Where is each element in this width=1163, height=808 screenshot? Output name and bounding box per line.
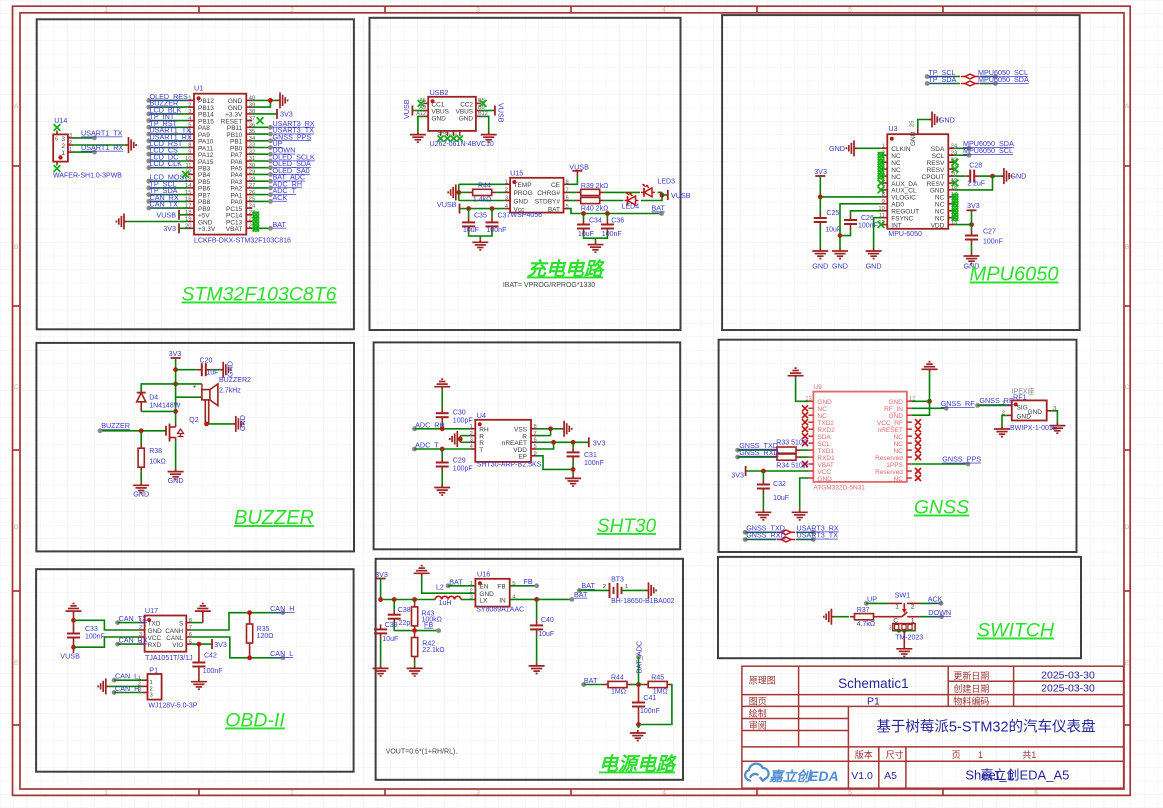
svg-text:5: 5 [566,204,569,210]
svg-text:100nF: 100nF [85,634,105,641]
svg-text:LED3: LED3 [658,178,676,185]
svg-text:B: B [1125,244,1129,251]
svg-text:+: + [193,383,197,390]
svg-text:CAN_RX: CAN_RX [119,636,148,645]
svg-text:GNSS_RF: GNSS_RF [941,399,976,408]
svg-text:Reserved: Reserved [875,469,903,476]
svg-text:U15: U15 [510,169,523,178]
svg-text:DOWN: DOWN [928,608,951,617]
svg-text:2.2uF: 2.2uF [967,181,985,188]
svg-text:A: A [1125,103,1130,110]
svg-text:基于树莓派5-STM32的汽车仪表盘: 基于树莓派5-STM32的汽车仪表盘 [876,718,1095,736]
svg-text:D: D [1125,524,1130,531]
svg-text:嘉立创: 嘉立创 [768,769,812,784]
svg-text:U3: U3 [888,124,897,133]
svg-text:SHT30-ARP-B2.5KS: SHT30-ARP-B2.5KS [477,462,542,469]
svg-text:Schematic1: Schematic1 [838,676,909,691]
svg-text:5: 5 [848,789,852,796]
svg-text:BT3: BT3 [611,576,624,583]
svg-text:CANL: CANL [166,635,183,642]
svg-text:GND: GND [832,262,848,271]
svg-text:GND: GND [1010,172,1026,181]
svg-text:C37: C37 [498,213,511,220]
svg-text:EN: EN [479,584,488,591]
svg-text:25: 25 [910,121,916,127]
svg-text:R34 510Ω: R34 510Ω [776,462,808,469]
svg-text:CANH: CANH [165,628,183,635]
svg-text:U9: U9 [813,384,822,391]
svg-text:100nF: 100nF [487,227,507,234]
svg-text:SW1: SW1 [895,591,911,600]
svg-text:VIO: VIO [172,642,183,649]
svg-text:L2: L2 [436,585,444,592]
svg-text:1: 1 [104,7,108,14]
svg-text:MPU-6050: MPU-6050 [888,231,922,238]
svg-text:ADC_T: ADC_T [415,441,439,450]
svg-text:SHELL1: SHELL1 [437,131,458,137]
svg-text:C34: C34 [589,218,602,225]
svg-text:C31: C31 [584,452,597,459]
svg-text:10uF: 10uF [825,227,841,234]
svg-text:E: E [1125,660,1130,667]
svg-text:RF1: RF1 [1013,393,1027,402]
svg-text:3: 3 [150,693,153,699]
svg-text:NC: NC [894,476,904,483]
svg-text:D: D [14,524,19,531]
svg-text:2.7kHz: 2.7kHz [219,388,241,395]
svg-text:2: 2 [911,604,915,611]
svg-text:AUX_CL: AUX_CL [891,188,917,195]
svg-text:LX: LX [479,597,488,604]
svg-text:GND: GND [148,628,163,635]
svg-text:1uF: 1uF [206,370,218,377]
svg-text:IN: IN [499,597,506,604]
svg-text:WSP4056: WSP4056 [511,212,543,219]
svg-text:BAT: BAT [584,676,598,685]
svg-text:6: 6 [1034,789,1038,796]
svg-text:3: 3 [476,789,480,796]
svg-text:FB: FB [524,577,533,586]
svg-text:5: 5 [848,7,852,14]
svg-text:BAT: BAT [581,581,595,590]
svg-text:1N4148W: 1N4148W [149,403,181,410]
svg-text:6: 6 [55,137,58,143]
svg-text:SHT30: SHT30 [597,516,657,537]
svg-text:SCL: SCL [932,153,945,160]
svg-text:P1: P1 [149,666,158,675]
svg-text:CAN_TX: CAN_TX [119,614,148,623]
svg-text:2: 2 [150,686,153,692]
svg-text:GND: GND [817,399,832,406]
svg-text:INT: INT [891,222,902,229]
svg-text:GND: GND [930,188,945,195]
svg-text:VCC: VCC [148,635,162,642]
svg-text:GNSS_RXD: GNSS_RXD [746,531,786,540]
svg-text:GNSS_RXD: GNSS_RXD [739,448,779,457]
svg-text:V1.0: V1.0 [851,770,873,782]
svg-text:100nF: 100nF [858,223,878,230]
svg-text:GND: GND [812,262,828,271]
svg-text:2: 2 [470,588,473,594]
svg-text:BUZZER2: BUZZER2 [219,377,251,384]
svg-text:BH-18650-B1BA002: BH-18650-B1BA002 [611,598,675,605]
svg-text:GND: GND [829,144,845,153]
svg-text:VUSB: VUSB [402,99,411,119]
svg-text:22.1kΩ: 22.1kΩ [422,647,444,654]
svg-text:1.4kΩ: 1.4kΩ [473,197,491,204]
svg-text:3: 3 [889,626,892,632]
svg-text:3: 3 [505,196,508,202]
svg-text:GND: GND [514,198,529,205]
svg-text:1: 1 [69,147,72,153]
svg-text:3V3: 3V3 [169,349,182,358]
svg-text:100pF: 100pF [453,466,473,473]
svg-text:MPU6050_SDA: MPU6050_SDA [978,75,1029,84]
svg-text:EP: EP [518,454,527,461]
svg-text:2: 2 [69,140,72,146]
svg-text:GND: GND [238,415,247,431]
svg-text:ATGM332D-5N31: ATGM332D-5N31 [813,485,865,492]
svg-text:U17: U17 [145,606,158,615]
svg-text:NC: NC [891,153,901,160]
svg-text:FB: FB [497,584,505,591]
svg-text:P1: P1 [867,695,880,707]
svg-text:3V3: 3V3 [814,167,827,176]
svg-text:FB: FB [424,620,433,629]
svg-text:U1: U1 [194,84,203,93]
svg-text:LED4: LED4 [622,204,640,211]
svg-text:3: 3 [476,7,480,14]
svg-text:GND: GND [888,399,903,406]
svg-text:GND: GND [910,131,917,146]
svg-text:CAN_TX: CAN_TX [150,200,179,209]
svg-text:GND: GND [226,361,235,377]
svg-text:RXD2: RXD2 [817,427,835,434]
svg-text:尺寸: 尺寸 [886,749,904,760]
svg-text:S: S [179,620,183,627]
svg-text:10kΩ: 10kΩ [149,459,166,466]
svg-text:页: 页 [952,750,961,760]
svg-text:8: 8 [566,180,569,186]
svg-text:MPU6050: MPU6050 [970,264,1059,286]
svg-text:MPU6050_SCL: MPU6050_SCL [963,146,1013,155]
svg-text:GNSS_RF: GNSS_RF [979,396,1014,405]
svg-text:VUSB: VUSB [671,191,691,200]
svg-text:WAFER-SH1.0-3PWB: WAFER-SH1.0-3PWB [53,173,122,180]
svg-text:1PPS: 1PPS [886,462,903,469]
svg-text:C39: C39 [385,622,398,629]
svg-text:GND: GND [168,476,184,485]
svg-text:C35: C35 [474,213,487,220]
svg-text:C: C [14,384,19,391]
svg-text:A5: A5 [884,770,897,782]
svg-text:R33 510Ω: R33 510Ω [776,440,808,447]
svg-text:GND: GND [939,116,955,125]
svg-text:SWITCH: SWITCH [977,620,1055,642]
svg-text:3V3: 3V3 [163,224,176,233]
svg-text:3V3: 3V3 [593,438,606,447]
svg-text:1: 1 [895,604,899,611]
svg-text:NC: NC [894,441,904,448]
svg-text:NC: NC [817,413,827,420]
svg-text:10uF: 10uF [538,631,554,638]
svg-text:SY8089A1AAC: SY8089A1AAC [476,607,524,614]
svg-text:A: A [14,103,19,110]
svg-text:UP: UP [867,595,877,604]
svg-text:R44: R44 [478,182,491,189]
svg-text:SCL: SCL [817,441,830,448]
svg-text:VUSB: VUSB [496,103,505,123]
svg-text:SIG: SIG [1017,405,1028,412]
svg-text:C27: C27 [983,229,996,236]
svg-text:更新日期: 更新日期 [953,670,989,681]
svg-text:VOUT=0.6*(1+RH/RL).: VOUT=0.6*(1+RH/RL). [386,749,458,756]
svg-text:嘉立创EDA_A5: 嘉立创EDA_A5 [981,768,1070,783]
svg-text:GND: GND [459,116,474,123]
svg-text:100nF: 100nF [584,460,604,467]
svg-text:CAN_L: CAN_L [115,672,138,681]
svg-text:VBUS: VBUS [456,109,473,116]
svg-text:U4: U4 [477,411,486,420]
svg-text:nRESET: nRESET [878,427,903,434]
svg-text:C26: C26 [861,215,874,222]
svg-text:Q2: Q2 [189,417,198,424]
svg-text:PROG: PROG [514,190,533,197]
svg-text:WJ128V-5.0-3P: WJ128V-5.0-3P [148,703,197,710]
svg-text:CAN_H: CAN_H [115,684,139,693]
svg-text:C33: C33 [85,626,98,633]
svg-text:GND: GND [432,116,447,123]
svg-text:BUZZER: BUZZER [234,507,314,529]
svg-text:2025-03-30: 2025-03-30 [1041,683,1095,695]
svg-text:E: E [14,660,19,667]
svg-text:ACK: ACK [273,193,288,202]
svg-text:1: 1 [625,584,628,590]
svg-text:R38: R38 [149,448,162,455]
svg-text:NC: NC [935,202,945,209]
svg-text:C28: C28 [969,163,982,170]
svg-text:R44: R44 [611,675,624,682]
svg-text:120Ω: 120Ω [257,633,274,640]
svg-text:R37: R37 [857,607,870,614]
svg-text:2: 2 [61,143,65,150]
svg-text:电源电路: 电源电路 [599,754,677,776]
svg-text:VUSB: VUSB [60,652,80,661]
svg-text:+3.3V: +3.3V [198,226,216,233]
svg-text:BWIPX-1-001E: BWIPX-1-001E [1010,425,1058,432]
svg-text:2025-03-30: 2025-03-30 [1041,670,1095,682]
svg-text:U14: U14 [54,116,67,125]
svg-text:STM32F103C8T6: STM32F103C8T6 [182,284,337,306]
svg-text:1: 1 [150,680,153,686]
svg-text:VDD: VDD [931,222,945,229]
svg-text:图页: 图页 [749,696,767,706]
svg-text:4.7kΩ: 4.7kΩ [857,621,875,628]
svg-text:1uH: 1uH [439,600,452,607]
svg-text:TP_SDA: TP_SDA [928,75,956,84]
svg-text:R35: R35 [257,626,270,633]
svg-text:2: 2 [603,584,606,590]
svg-text:BAT: BAT [652,204,666,213]
svg-text:10uF: 10uF [382,636,398,643]
svg-text:版本: 版本 [855,749,873,760]
svg-text:6: 6 [1034,7,1038,14]
svg-text:TEMP: TEMP [514,182,532,189]
svg-text:T: T [479,447,483,454]
svg-text:VBUS: VBUS [432,109,449,116]
svg-text:D4: D4 [149,395,158,402]
svg-text:GNSS_PPS: GNSS_PPS [942,455,981,464]
svg-text:RESV: RESV [927,167,945,174]
svg-text:BAT_ADC: BAT_ADC [634,641,643,674]
svg-text:6: 6 [566,196,569,202]
svg-text:USART1_TX: USART1_TX [81,129,123,138]
svg-text:TXD: TXD [148,620,161,627]
svg-text:TXD1: TXD1 [817,448,834,455]
svg-text:C42: C42 [204,653,217,660]
svg-text:USB2: USB2 [430,88,449,97]
svg-text:GND: GND [866,262,882,271]
svg-text:1: 1 [104,789,108,796]
svg-text:7: 7 [566,188,569,194]
svg-text:10uF: 10uF [578,231,594,238]
svg-text:10uF: 10uF [463,227,479,234]
svg-text:USART1_RX: USART1_RX [81,143,123,152]
svg-text:100nF: 100nF [640,708,660,715]
svg-text:100nF: 100nF [983,239,1003,246]
svg-text:GND: GND [888,413,903,420]
svg-text:GND: GND [817,476,832,483]
svg-text:10uF: 10uF [773,495,789,502]
svg-text:OBD-II: OBD-II [225,710,285,732]
svg-text:ACK: ACK [928,595,943,604]
svg-text:审阅: 审阅 [749,720,767,731]
svg-text:3: 3 [61,136,65,143]
svg-text:C38: C38 [398,607,411,614]
svg-text:100nF: 100nF [602,231,622,238]
svg-text:4: 4 [662,7,666,14]
svg-text:IBAT= VPROG/RPROG*1330: IBAT= VPROG/RPROG*1330 [503,282,595,289]
svg-text:100nF: 100nF [203,668,223,675]
svg-text:原理图: 原理图 [749,676,776,686]
svg-text:2: 2 [290,7,294,14]
svg-text:CHRG#: CHRG# [537,190,560,197]
svg-text:B: B [14,244,18,251]
svg-text:GND: GND [133,490,149,499]
svg-text:创建日期: 创建日期 [953,683,989,694]
svg-text:3V3: 3V3 [731,471,744,480]
svg-text:CC1: CC1 [432,101,445,108]
svg-text:NC: NC [894,448,904,455]
svg-text:GNSS: GNSS [914,497,969,519]
svg-text:1: 1 [505,180,508,186]
svg-text:LCKFB-DKX-STM32F103C816: LCKFB-DKX-STM32F103C816 [194,238,291,245]
svg-text:R40 2kΩ: R40 2kΩ [581,205,608,212]
svg-text:C: C [1125,384,1130,391]
svg-text:AD0: AD0 [891,202,904,209]
svg-text:C20: C20 [200,357,213,364]
svg-text:USART3_TX: USART3_TX [797,531,839,540]
svg-text:VCC: VCC [817,469,831,476]
svg-text:4: 4 [662,789,666,796]
svg-text:2: 2 [505,188,508,194]
svg-text:C32: C32 [773,481,786,488]
svg-text:3V3: 3V3 [280,109,293,118]
svg-text:R45: R45 [651,675,664,682]
svg-text:STDBY#: STDBY# [535,198,561,205]
svg-text:LCD_CLK: LCD_CLK [150,159,183,168]
svg-text:CE: CE [551,182,561,189]
svg-text:BAT: BAT [548,206,560,213]
svg-text:3: 3 [69,133,72,139]
svg-text:C25: C25 [826,210,839,217]
svg-text:1: 1 [978,750,983,760]
svg-text:RXD: RXD [148,642,162,649]
svg-text:TM-2023: TM-2023 [895,634,923,641]
svg-text:CAN_H: CAN_H [270,604,294,613]
svg-text:BAT: BAT [273,220,287,229]
svg-text:绘制: 绘制 [749,708,767,719]
svg-text:充电电路: 充电电路 [527,259,605,281]
svg-text:C40: C40 [541,617,554,624]
svg-text:BUZZER: BUZZER [101,421,130,430]
svg-text:VCC_RF: VCC_RF [877,420,903,427]
svg-text:VUSB: VUSB [569,162,589,171]
svg-text:C30: C30 [453,410,466,417]
svg-text:C29: C29 [453,458,466,465]
svg-text:2: 2 [290,789,294,796]
svg-text:TXD2: TXD2 [817,420,834,427]
svg-text:C41: C41 [643,695,656,702]
svg-text:1MΩ: 1MΩ [611,689,626,696]
svg-text:3V3: 3V3 [967,201,980,210]
svg-text:3V3: 3V3 [214,640,227,649]
svg-text:3: 3 [470,595,473,601]
svg-text:CC2: CC2 [460,101,473,108]
svg-text:物料编码: 物料编码 [953,695,989,706]
svg-text:BAT: BAT [449,577,463,586]
svg-text:U262-061N-4BVC10: U262-061N-4BVC10 [430,141,494,148]
svg-text:VUSB: VUSB [156,210,176,219]
svg-text:VBAT: VBAT [226,226,243,233]
svg-text:C36: C36 [611,218,624,225]
svg-text:共1: 共1 [1022,750,1036,760]
svg-text:TJA1051T/3/1J: TJA1051T/3/1J [145,655,192,662]
svg-text:VUSB: VUSB [437,200,457,209]
svg-text:EDA: EDA [809,768,839,784]
svg-text:U16: U16 [477,570,490,579]
svg-text:CAN_L: CAN_L [270,649,293,658]
svg-text:GND: GND [1028,409,1043,416]
svg-text:VBAT: VBAT [817,462,834,469]
svg-text:R39 2kΩ: R39 2kΩ [581,183,608,190]
svg-text:NC: NC [891,167,901,174]
